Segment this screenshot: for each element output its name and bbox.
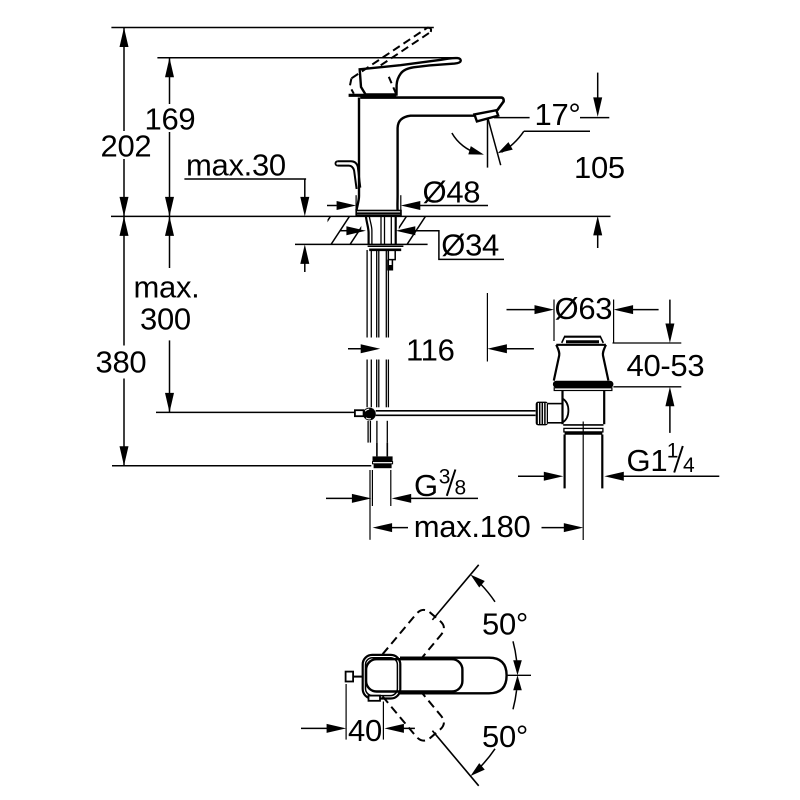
dimension 116 right arrow bbox=[487, 344, 507, 353]
dimension max.30 lower arrow bbox=[304, 258, 306, 272]
svg-text:max.180: max.180 bbox=[414, 509, 531, 544]
svg-text:380: 380 bbox=[96, 345, 147, 380]
drain pull rod knob bbox=[338, 161, 361, 187]
faucet base plate bbox=[356, 211, 401, 216]
reference line top (raised handle height) bbox=[111, 27, 433, 29]
svg-text:169: 169 bbox=[145, 102, 196, 137]
reference line counter top bbox=[111, 215, 611, 217]
mounting nut below counter bbox=[368, 245, 404, 247]
50deg lower arc bbox=[513, 690, 517, 709]
G 3/8 fitting lower dark band bbox=[374, 464, 392, 468]
dimension O34 leader bbox=[410, 231, 504, 260]
rod connector step 2 bbox=[388, 260, 393, 270]
50deg lower angle line bbox=[432, 731, 478, 786]
shank rod line curved bbox=[369, 216, 372, 244]
dimension 202 line bbox=[123, 28, 125, 217]
G 3/8 fitting white ring bbox=[373, 462, 393, 464]
dimension 380 line bbox=[123, 216, 125, 465]
dimension 202 arrows bbox=[120, 28, 129, 48]
dimension G3/8 arrows bbox=[326, 497, 352, 499]
svg-text:116: 116 bbox=[406, 332, 455, 367]
dimension 105 upper arrow bbox=[597, 73, 599, 103]
dimension max.300 line bbox=[169, 216, 171, 412]
shank thread lines bbox=[381, 216, 391, 244]
G 3/8 fitting neck bbox=[377, 443, 387, 457]
dimension O34 arrows bbox=[340, 230, 347, 232]
svg-text:4: 4 bbox=[683, 454, 695, 477]
handle raised dashed upper line bbox=[352, 28, 428, 79]
faucet body right edge and spout underside bbox=[397, 116, 474, 211]
dimension G1 1/4 arrows bbox=[518, 475, 550, 477]
pop-up waste flange bbox=[556, 344, 606, 346]
dimension 116 left arrow bbox=[348, 348, 366, 350]
reference line handle top (169) bbox=[157, 57, 456, 59]
handle raised dashed tip bbox=[427, 28, 431, 32]
svg-text:G: G bbox=[414, 468, 438, 503]
svg-text:300: 300 bbox=[140, 302, 191, 337]
pull rod below counter bbox=[367, 250, 371, 407]
dimension 40-53 arrows bbox=[669, 300, 671, 330]
17deg reference line segments bbox=[494, 117, 530, 119]
dimension 116 extension line bbox=[486, 293, 488, 362]
top view: side tab bbox=[353, 676, 363, 678]
svg-text:3: 3 bbox=[439, 466, 451, 489]
supply pipe below counter bbox=[368, 250, 388, 443]
top view: dashed grip rotated down 50deg bbox=[383, 693, 444, 741]
dimension max.30 upper arrow bbox=[304, 179, 306, 203]
svg-text:Ø63: Ø63 bbox=[555, 291, 613, 326]
dimension O48 arrows bbox=[327, 205, 337, 207]
horizontal pop-up rod bbox=[376, 410, 536, 412]
handle raised dashed block right edge bbox=[389, 77, 396, 94]
dimension 40 arrows bbox=[301, 727, 332, 729]
dimension 169 arrows bbox=[165, 58, 174, 77]
rod connector step 1 bbox=[388, 251, 395, 260]
svg-text:max.: max. bbox=[134, 270, 200, 305]
dimension max.30 label line bbox=[184, 178, 306, 180]
dimension max.180 left arrow bbox=[373, 523, 393, 532]
svg-text:8: 8 bbox=[455, 477, 467, 500]
dimension 40-53 reference lines bbox=[613, 342, 682, 344]
waste centerline bbox=[582, 422, 584, 541]
svg-text:50°: 50° bbox=[482, 719, 528, 754]
G 3/8 fitting dark band bbox=[373, 456, 393, 461]
svg-text:Ø48: Ø48 bbox=[423, 175, 481, 210]
dimension O63 arrows bbox=[507, 309, 541, 311]
top view: dashed grip rotated up 50deg bbox=[383, 610, 444, 658]
pop-up waste cap bbox=[564, 336, 601, 338]
aerator outlet bbox=[474, 110, 498, 121]
50deg upper arc bbox=[513, 641, 517, 660]
top view: cap bottom marker bbox=[369, 696, 381, 701]
shank outer right in counter bbox=[395, 216, 397, 244]
handle raised dashed lower line bbox=[381, 32, 431, 65]
top view: handle grip inner outline bbox=[366, 659, 462, 691]
svg-text:17°: 17° bbox=[535, 97, 581, 132]
top view: handle grip outer outline bbox=[400, 658, 507, 694]
50deg upper angle line bbox=[432, 565, 478, 620]
svg-text:40: 40 bbox=[348, 713, 382, 748]
water stream angled line bbox=[488, 119, 501, 165]
17deg leader line bbox=[524, 130, 590, 132]
svg-text:G1: G1 bbox=[627, 443, 668, 478]
svg-text:max.30: max.30 bbox=[186, 148, 286, 183]
counter hatch right bbox=[387, 215, 446, 246]
shank outer left in counter bbox=[366, 216, 369, 244]
reference line max.300 bottom bbox=[156, 411, 355, 413]
dimension 105 lower arrow bbox=[593, 216, 602, 236]
dimension max.180 right arrow bbox=[542, 527, 570, 529]
svg-text:40-53: 40-53 bbox=[627, 348, 705, 383]
top view: pivot cap outer bbox=[363, 655, 401, 699]
svg-text:50°: 50° bbox=[482, 607, 528, 642]
dimension 380 arrows bbox=[120, 216, 129, 236]
pull rod ball joint bbox=[363, 408, 376, 421]
knurled adjuster knob bbox=[536, 402, 548, 426]
dimension 40 extension lines bbox=[345, 684, 347, 740]
water stream vertical reference bbox=[487, 119, 489, 168]
svg-text:Ø34: Ø34 bbox=[441, 227, 499, 262]
handle base joint thick line bbox=[349, 94, 397, 97]
handle raised dashed block left edge bbox=[350, 79, 354, 94]
handle lever solid bbox=[360, 58, 461, 94]
dimension G3/8 extension lines bbox=[369, 470, 371, 540]
pop-up waste rubber gasket bbox=[553, 381, 614, 388]
pull rod clamp bbox=[355, 410, 364, 416]
svg-text:105: 105 bbox=[574, 150, 625, 185]
dimension max.300 arrows bbox=[165, 216, 174, 236]
waste coupling nut bbox=[563, 424, 603, 426]
faucet body left edge bbox=[356, 98, 359, 211]
svg-text:1: 1 bbox=[667, 440, 679, 463]
dimension O63 extension lines bbox=[553, 300, 555, 342]
angle sweep arc arrow bbox=[452, 133, 478, 153]
dimension 169 line bbox=[169, 58, 171, 217]
faucet body top line bbox=[360, 98, 503, 111]
reference line 380 bottom bbox=[112, 465, 371, 467]
waste tailpipe bbox=[563, 435, 565, 489]
dimension O48 extension lines bbox=[355, 195, 357, 213]
pop-up waste washer bbox=[554, 388, 612, 391]
knob neck bbox=[548, 403, 563, 405]
valve body side boss bbox=[563, 399, 569, 423]
handle axis centerline bbox=[508, 674, 531, 676]
reference line counter bottom bbox=[295, 243, 428, 245]
pop-up waste valve body bbox=[561, 391, 563, 425]
top view: pivot cap inner bbox=[366, 658, 398, 696]
